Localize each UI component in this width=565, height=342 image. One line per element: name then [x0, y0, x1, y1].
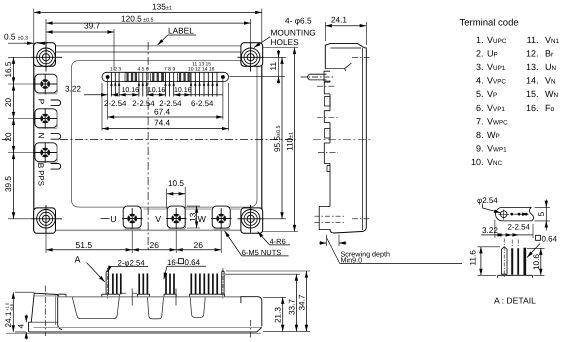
round pin elevation — [502, 247, 508, 274]
4-R6 callout — [258, 232, 291, 246]
svg-text:7.: 7. — [476, 116, 484, 126]
svg-text:Fo: Fo — [545, 103, 555, 113]
right corner boss — [241, 296, 262, 326]
dim 11.6 — [468, 247, 500, 275]
16-sq0.64 callout — [164, 258, 206, 279]
svg-text:4: 4 — [17, 324, 26, 329]
mounting hole BL — [32, 205, 63, 233]
svg-text:A: A — [75, 255, 81, 265]
small step below B — [327, 166, 330, 172]
B terminal block side — [324, 143, 330, 163]
pin header strip — [102, 72, 229, 81]
dim 0.5±0.3 — [4, 31, 48, 43]
svg-text:2.: 2. — [476, 49, 484, 59]
svg-text:16.: 16. — [526, 103, 539, 113]
dim 4 (flange) — [17, 315, 27, 340]
pin base tab cluster3 — [164, 294, 176, 296]
svg-text:5: 5 — [537, 211, 546, 216]
bottom dims 51.5 / 26 / 26 — [46, 229, 221, 253]
svg-text:11: 11 — [269, 62, 278, 71]
svg-text:VUPC: VUPC — [487, 35, 507, 45]
svg-text:24.1: 24.1 — [331, 15, 347, 24]
dim 24.1 +1.0 -0.5 (left) — [4, 292, 34, 332]
edge-on pin bar — [523, 248, 526, 276]
pin pitch dim line — [104, 79, 223, 120]
svg-text:11.6: 11.6 — [468, 250, 477, 266]
dim 11 (hole to pin row) — [230, 50, 286, 84]
corner ear pad TL — [34, 43, 56, 67]
hatch block 1 — [125, 73, 190, 82]
svg-text:Br: Br — [545, 49, 554, 59]
svg-text:PPS: PPS — [36, 170, 45, 186]
mounting hole BR — [238, 205, 264, 233]
pocket 1 — [72, 297, 119, 318]
6-M5 NUTS callout — [225, 231, 289, 257]
svg-text:±0.5: ±0.5 — [276, 126, 282, 136]
svg-text:11.: 11. — [527, 35, 539, 45]
svg-text:VVP1: VVP1 — [487, 103, 505, 113]
molded rib side — [325, 97, 331, 107]
svg-text:6.: 6. — [476, 103, 484, 113]
svg-text:1 2 3: 1 2 3 — [110, 66, 121, 72]
svg-text:33.7: 33.7 — [287, 299, 296, 315]
svg-text:VWPC: VWPC — [487, 116, 508, 126]
bottom view callouts and dims — [4, 255, 310, 340]
svg-text:15.: 15. — [526, 89, 539, 99]
tower inner edge — [54, 295, 56, 326]
center line horizontal — [2, 139, 296, 141]
svg-text:16-: 16- — [167, 258, 179, 267]
svg-text:9.: 9. — [476, 143, 484, 153]
gray shadows under U/V/W blocks — [125, 228, 231, 230]
square pins 1-3 — [113, 274, 121, 295]
dim 24.1 — [325, 15, 366, 45]
screw B — [35, 142, 57, 162]
inner lid boundary (rounded rect) — [71, 61, 257, 208]
screw N — [35, 108, 57, 128]
corner ear pad BL — [34, 208, 56, 233]
svg-text:20: 20 — [4, 97, 13, 107]
svg-text:26: 26 — [150, 240, 160, 250]
svg-text:2-2.54: 2-2.54 — [104, 99, 127, 108]
svg-text:B: B — [36, 163, 45, 169]
svg-text:20: 20 — [4, 132, 13, 142]
left edge between features — [329, 81, 331, 207]
square pin bar 2 — [517, 248, 519, 275]
dim 10.6 — [527, 248, 545, 275]
LABEL callout — [158, 25, 197, 45]
N terminal block side — [324, 111, 330, 123]
svg-text:UP: UP — [487, 49, 498, 59]
screw V — [166, 208, 187, 229]
baseplate bottom — [29, 327, 262, 332]
svg-text:26: 26 — [194, 240, 204, 250]
svg-text:6-2.54: 6-2.54 — [191, 99, 214, 108]
svg-text:Terminal code: Terminal code — [460, 18, 519, 29]
dim 5 — [535, 200, 551, 231]
square pins 7-9 — [166, 274, 174, 295]
dim 13 (terminal block height) — [187, 206, 200, 228]
A detail callout — [75, 255, 105, 283]
module right edge — [261, 44, 263, 231]
svg-text:12.: 12. — [526, 49, 539, 59]
svg-text:74.4: 74.4 — [154, 117, 171, 127]
svg-text:2-2.54: 2-2.54 — [508, 223, 531, 232]
svg-text:P: P — [37, 99, 46, 105]
dim 3.22 detail — [481, 220, 533, 238]
svg-text:W: W — [198, 214, 207, 224]
svg-text:10.16: 10.16 — [122, 87, 140, 94]
pins group 1 (1,2,3) — [110, 66, 121, 96]
svg-text:3.: 3. — [476, 62, 484, 72]
svg-text:34.7: 34.7 — [297, 294, 306, 310]
lid step line below top edge — [56, 51, 241, 53]
bottom terminal block V — [167, 206, 185, 228]
svg-text:3.22: 3.22 — [65, 85, 81, 94]
corner ear pad BR — [241, 208, 263, 233]
svg-text:10.16: 10.16 — [148, 87, 166, 94]
svg-text:13.: 13. — [526, 62, 539, 72]
svg-text:8.: 8. — [476, 130, 484, 140]
molded tab between N and B — [51, 134, 61, 140]
svg-text:110: 110 — [286, 138, 295, 151]
pins bottom view — [106, 268, 224, 299]
svg-text:135: 135 — [152, 2, 166, 12]
left screw terminal block B — [35, 143, 57, 162]
P terminal block side — [324, 82, 330, 94]
svg-text:Min9.0: Min9.0 — [341, 255, 363, 264]
mounting hole TL — [32, 44, 63, 72]
svg-text:0.64: 0.64 — [185, 258, 201, 267]
round pin mark right — [221, 75, 225, 79]
dim 135 — [34, 2, 262, 44]
svg-text:2-2.54: 2-2.54 — [132, 99, 155, 108]
svg-text:VN1: VN1 — [545, 35, 560, 45]
svg-text:39.5: 39.5 — [4, 176, 13, 192]
svg-text:10.6: 10.6 — [532, 254, 541, 270]
svg-text:51.5: 51.5 — [76, 240, 93, 250]
molded tab below B — [51, 164, 61, 170]
lid bottom line — [325, 63, 351, 71]
svg-text:13: 13 — [189, 212, 198, 222]
left flange step (4mm) — [29, 322, 32, 332]
svg-text:1.: 1. — [476, 35, 484, 45]
center lines in bottom view — [44, 286, 46, 337]
svg-text:VP: VP — [487, 89, 497, 99]
svg-text:2-φ2.54: 2-φ2.54 — [118, 258, 146, 267]
round pin A (left) — [106, 271, 108, 295]
cap inner chamfer line — [330, 47, 361, 49]
elevation: base — [498, 275, 533, 278]
svg-text:VVPC: VVPC — [487, 76, 506, 86]
side view outline — [325, 43, 366, 233]
svg-text:10.16: 10.16 — [174, 87, 192, 94]
pin base tab cluster4 — [190, 294, 225, 296]
svg-text:24.1: 24.1 — [4, 311, 13, 327]
pocket 2 — [148, 297, 164, 318]
dim 39.5 — [4, 153, 32, 219]
molded tab between P and N — [51, 100, 61, 106]
square pins 4-6 — [139, 274, 147, 295]
svg-text:UN: UN — [545, 62, 557, 72]
dim 20 lower — [4, 119, 36, 153]
pin row block — [324, 71, 330, 81]
svg-text:VWP1: VWP1 — [487, 143, 507, 153]
dim 10.5 (W terminal) — [167, 179, 186, 228]
svg-text:10.5: 10.5 — [168, 179, 184, 188]
dim 67.4 — [108, 107, 223, 117]
svg-text:φ2.54: φ2.54 — [477, 196, 498, 205]
center line vertical — [147, 42, 149, 250]
svg-text:39.7: 39.7 — [84, 21, 101, 31]
pin base tab cluster1 — [102, 294, 120, 296]
dim 120.5 — [46, 13, 251, 44]
svg-text:10.: 10. — [471, 157, 484, 167]
svg-text:WN: WN — [545, 89, 559, 99]
svg-text:±0.3: ±0.3 — [18, 35, 28, 41]
svg-text:A : DETAIL: A : DETAIL — [494, 296, 536, 306]
module left edge — [33, 44, 35, 231]
molded rib side — [325, 129, 331, 139]
screwing depth mini dim — [319, 235, 347, 247]
svg-text:±0.5: ±0.5 — [143, 17, 153, 23]
svg-text:3.22: 3.22 — [482, 226, 498, 235]
center line — [313, 139, 371, 141]
pins group 3 (7,8,9) — [164, 66, 175, 96]
plan strip of detail — [496, 207, 534, 221]
square pins 10-16 — [191, 274, 217, 295]
row centerline tick left of U — [101, 218, 110, 220]
right inner edge line — [362, 48, 364, 230]
dim 3.22 (pin offset) — [65, 85, 118, 95]
svg-text:95.5: 95.5 — [273, 136, 282, 152]
svg-text:0.5: 0.5 — [4, 31, 16, 41]
dim 95.5 — [263, 57, 286, 219]
svg-text:5.: 5. — [476, 89, 484, 99]
body top edge (gray band) — [58, 296, 241, 298]
Screwing depth Min9.0 callout — [327, 238, 463, 265]
svg-text:67.4: 67.4 — [154, 107, 171, 117]
svg-text:10 12 14 16: 10 12 14 16 — [188, 67, 215, 73]
svg-text:WP: WP — [487, 130, 500, 140]
svg-text:±1: ±1 — [166, 6, 172, 12]
square pin bar 1 — [511, 248, 513, 275]
tower top gray — [35, 295, 58, 297]
svg-text:LABEL: LABEL — [168, 25, 194, 35]
svg-text:7 8 9: 7 8 9 — [164, 66, 175, 72]
svg-text:VN: VN — [545, 76, 556, 86]
U/V/W terminal block side — [319, 207, 330, 230]
left screw terminal block N — [35, 109, 57, 128]
pocket 3 — [190, 297, 205, 317]
round pin B (right) — [222, 271, 224, 295]
baseplate bottom shadow — [6, 332, 261, 334]
svg-text:HOLES: HOLES — [271, 37, 300, 47]
svg-text:4.: 4. — [476, 76, 484, 86]
svg-text:4- φ6.5: 4- φ6.5 — [285, 15, 312, 25]
round pin plan — [500, 211, 507, 218]
module top edge (light) — [34, 45, 262, 47]
pins group 4 (10-16) — [188, 62, 218, 97]
sq 0.64 callout — [527, 234, 558, 257]
small step tab left — [59, 294, 66, 296]
mounting hole TR — [238, 44, 264, 72]
dots centerline arrow toward break — [514, 213, 529, 215]
dim 110 — [263, 48, 298, 232]
signal pin sticking out — [307, 74, 327, 80]
svg-text:4 5 6: 4 5 6 — [138, 66, 149, 72]
mounting hole marks on side — [352, 57, 371, 219]
bottom terminal block U — [123, 206, 141, 228]
round pin mark left — [106, 75, 110, 79]
square pin dots plan — [510, 213, 513, 216]
dim 21.3 — [263, 297, 310, 331]
svg-text:VUP1: VUP1 — [487, 62, 506, 72]
svg-text:-0.5: -0.5 — [9, 303, 14, 311]
svg-text:V: V — [155, 214, 161, 224]
corner ear pad TR — [241, 43, 263, 67]
screw U — [122, 208, 143, 229]
pins group 2 (4,5,6) — [138, 66, 149, 96]
screw P — [35, 74, 57, 94]
dim 16.5 left — [4, 57, 36, 84]
svg-text:14.: 14. — [526, 76, 539, 86]
svg-text:VNC: VNC — [487, 157, 503, 167]
pin base tab cluster2 — [138, 294, 150, 296]
dim 34.7 — [226, 271, 310, 331]
dim 74.4 — [102, 83, 229, 131]
pin center line — [301, 76, 335, 78]
svg-text:16.5: 16.5 — [4, 61, 13, 77]
svg-text:0.64: 0.64 — [542, 234, 558, 243]
svg-text:U: U — [110, 214, 116, 224]
svg-text:±1: ±1 — [289, 132, 295, 138]
flange top inside tower — [31, 321, 57, 323]
left terminal tower — [31, 293, 62, 329]
module bottom edge (light) — [34, 229, 262, 231]
2-phi2.54 callout — [108, 258, 148, 272]
dim 33.7 — [225, 274, 300, 331]
svg-text:120.5: 120.5 — [121, 13, 142, 23]
dim 20 upper — [4, 84, 36, 119]
svg-text:4-R6: 4-R6 — [270, 237, 286, 246]
screw W — [211, 208, 232, 229]
svg-text:N: N — [37, 133, 46, 139]
baseplate top line — [34, 327, 262, 329]
svg-text:21.3: 21.3 — [274, 307, 283, 323]
bottom terminal block W — [212, 206, 230, 228]
dim 39.7 — [46, 19, 114, 70]
side view dimensions — [319, 15, 462, 264]
phi2.54 callout — [477, 196, 501, 213]
svg-text:6-M5 NUTS: 6-M5 NUTS — [242, 248, 282, 257]
4-phi6.5 MOUNTING HOLES callout — [254, 15, 316, 47]
left screw terminal block P — [35, 74, 57, 93]
